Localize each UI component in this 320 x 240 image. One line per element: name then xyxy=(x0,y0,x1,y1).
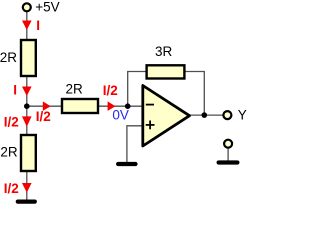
svg-text:2R: 2R xyxy=(66,82,84,97)
current arrow I/2 (bottom, down) xyxy=(22,183,32,193)
wire: lower terminal to ground xyxy=(227,148,229,161)
ground (lower right terminal) xyxy=(217,160,240,164)
svg-text:3R: 3R xyxy=(155,44,173,59)
wire: junction A down to resistor R2 top xyxy=(26,106,28,135)
svg-text:+5V: +5V xyxy=(35,0,59,14)
wire: junction A to resistor R3 left xyxy=(27,105,62,107)
svg-text:Y: Y xyxy=(238,108,247,123)
wire: R3 right to inverting input node B xyxy=(98,105,143,107)
wire: R1 bottom to junction A xyxy=(26,75,28,106)
svg-text:I/2: I/2 xyxy=(103,83,118,98)
terminal +5V xyxy=(23,3,31,11)
node B junction dot (inverting input) xyxy=(125,103,131,109)
terminal return (lower right) xyxy=(224,140,232,148)
op-amp minus sign xyxy=(146,104,154,106)
current arrow I (above junction, down) xyxy=(22,87,32,97)
node C junction dot (output) xyxy=(202,112,208,118)
svg-text:I: I xyxy=(36,18,40,33)
op-amp plus sign xyxy=(146,124,155,126)
svg-text:I: I xyxy=(13,83,17,98)
current arrow I/2 (right of junction) xyxy=(43,101,51,111)
ground (op-amp + input) xyxy=(116,162,138,166)
svg-text:0V: 0V xyxy=(112,108,129,123)
resistor R2 2R (bottom left vertical) xyxy=(21,135,36,171)
svg-text:I/2: I/2 xyxy=(4,181,19,196)
wire: R2 bottom to ground xyxy=(26,171,28,200)
current arrow I/2 (below junction, down) xyxy=(22,116,32,126)
ground (bottom left) xyxy=(16,200,37,204)
resistor R4 3R (feedback) xyxy=(147,65,185,78)
wire: feedback right from R4 to output node C xyxy=(186,72,205,116)
terminal Y xyxy=(223,111,231,119)
wire: op-amp output to Y terminal xyxy=(189,114,223,116)
wire: +5V terminal to resistor R1 top xyxy=(26,11,28,40)
svg-text:I/2: I/2 xyxy=(36,109,51,124)
op-amp U1 xyxy=(143,86,190,147)
svg-text:2R: 2R xyxy=(0,145,18,160)
svg-text:I/2: I/2 xyxy=(4,115,19,130)
node A junction dot xyxy=(24,103,30,109)
svg-text:2R: 2R xyxy=(0,50,17,65)
resistor R3 2R (horizontal) xyxy=(62,99,98,113)
current arrow I/2 (before op-amp, right) xyxy=(108,101,116,111)
wire: non-inverting input to ground xyxy=(127,126,142,162)
current arrow I (top, down) xyxy=(22,21,32,31)
wire: feedback left vertical from node B up xyxy=(128,72,146,107)
resistor R1 2R (top left vertical) xyxy=(21,40,36,76)
